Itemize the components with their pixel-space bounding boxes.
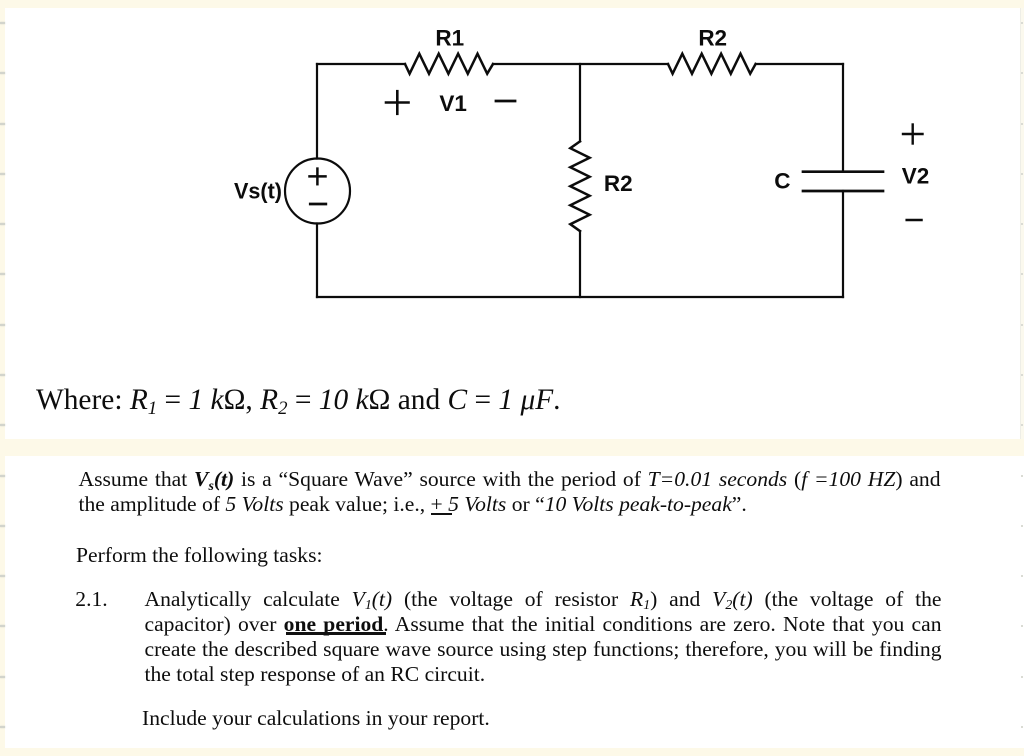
wire: bottom rail xyxy=(317,296,843,298)
capacitor C bottom plate xyxy=(803,190,883,193)
item 2.1 line 4 xyxy=(145,662,486,687)
left ruler ticks xyxy=(0,22,5,24)
svg-text:R2: R2 xyxy=(604,171,633,196)
closing line xyxy=(142,706,490,731)
label C xyxy=(774,168,790,193)
wire: left branch lower segment (source negative terminal to bottom rail) xyxy=(316,224,318,298)
wire: left branch upper segment (top node down to source positive terminal) xyxy=(316,64,318,159)
wire: middle branch lower segment (vertical R2 to bottom rail) xyxy=(579,231,581,297)
voltage source Vs(t) circle xyxy=(285,159,350,224)
svg-text:C: C xyxy=(774,168,790,193)
wire: top-right horizontal segment (R2 right terminal to capacitor branch) xyxy=(756,63,843,65)
svg-text:V2: V2 xyxy=(902,164,930,189)
circuit schematic xyxy=(0,0,1024,440)
capacitor C top plate xyxy=(803,170,883,173)
item 2.1 line 2 (justified) xyxy=(145,612,942,637)
plus sign inside source xyxy=(310,169,326,185)
item 2.1 line 3 (justified) xyxy=(145,637,942,662)
wire: top-middle horizontal segment (R1 right terminal through node A to R2 left terminal) xyxy=(493,63,668,65)
paragraph: Perform the following tasks xyxy=(76,543,323,568)
wire: right branch lower segment (capacitor bottom plate to bottom rail) xyxy=(842,191,844,297)
underline of "+" (plus-minus) xyxy=(431,513,452,515)
item number 2.1 xyxy=(75,587,107,612)
minus sign inside source xyxy=(310,203,326,206)
resistor R2 (horizontal zigzag, top) xyxy=(668,54,756,74)
minus sign of V1 polarity xyxy=(496,100,515,103)
paragraph: Assume that Vs(t) ... line 1 (justified) xyxy=(79,467,941,492)
label V2 xyxy=(902,164,930,189)
plus sign of V1 polarity xyxy=(386,91,409,114)
right ruler dots xyxy=(1021,22,1023,24)
paragraph line 2 xyxy=(79,492,747,517)
svg-text:Vs(t): Vs(t) xyxy=(234,178,282,203)
underline of "one period" xyxy=(286,632,386,635)
label R1 xyxy=(435,26,464,51)
label R2 (middle resistor) xyxy=(604,171,633,196)
svg-text:R1: R1 xyxy=(435,26,464,51)
label Vs(t) xyxy=(234,178,282,203)
wire: right branch upper segment (top rail down to capacitor top plate) xyxy=(842,64,844,172)
label V1 xyxy=(439,91,467,116)
wire: middle branch upper segment (node A down to vertical R2) xyxy=(579,64,581,141)
label R2 (top resistor) xyxy=(698,26,727,51)
item 2.1 line 1 (justified) xyxy=(145,587,942,612)
where-clause text xyxy=(36,385,561,415)
resistor R1 (horizontal zigzag) xyxy=(405,54,493,74)
resistor R2 (vertical zigzag, middle branch) xyxy=(570,141,589,231)
minus sign of V2 polarity xyxy=(907,219,922,222)
svg-text:V1: V1 xyxy=(439,91,467,116)
plus sign of V2 polarity xyxy=(903,125,923,144)
svg-text:R2: R2 xyxy=(698,26,727,51)
wire: top-left horizontal segment (source top node to R1 left terminal) xyxy=(317,63,405,65)
